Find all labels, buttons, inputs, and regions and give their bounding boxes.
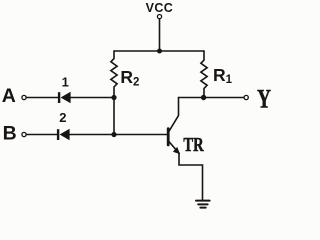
svg-text:R2: R2 bbox=[120, 67, 139, 88]
svg-text:2: 2 bbox=[59, 110, 66, 125]
svg-text:R1: R1 bbox=[213, 65, 233, 86]
svg-text:Y: Y bbox=[257, 85, 271, 114]
svg-text:1: 1 bbox=[62, 75, 69, 90]
svg-text:VCC: VCC bbox=[146, 1, 174, 15]
svg-text:A: A bbox=[2, 85, 16, 107]
svg-text:B: B bbox=[3, 122, 17, 144]
svg-text:TR: TR bbox=[183, 135, 204, 156]
